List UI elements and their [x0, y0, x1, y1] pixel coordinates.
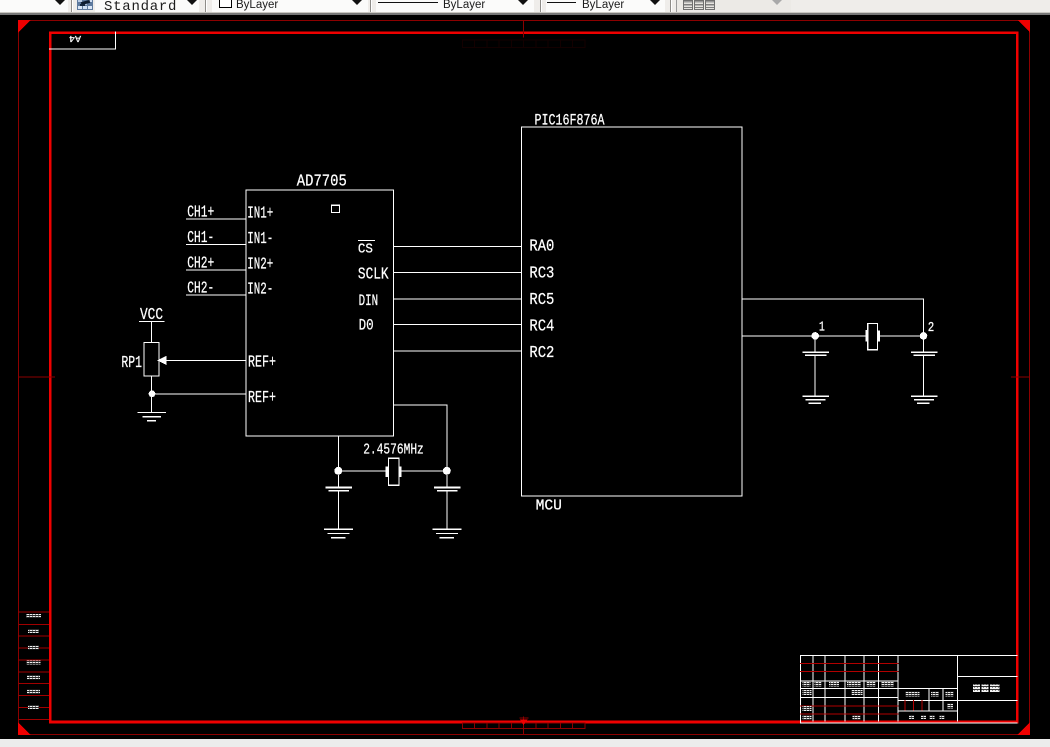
potentiometer RP1	[144, 342, 167, 376]
svg-text:RA0: RA0	[529, 238, 554, 257]
node 2 junction	[920, 332, 928, 340]
crystal Y2 2.4576MHz	[386, 458, 402, 485]
svg-text:RP1: RP1	[121, 354, 142, 373]
svg-text:MCU: MCU	[536, 497, 562, 514]
pin label IN1-	[247, 230, 273, 249]
node B1 junction	[334, 467, 342, 475]
wire node B1 to crystal Y2	[338, 470, 385, 471]
svg-text:A4: A4	[69, 33, 81, 43]
node 1 junction	[811, 332, 819, 340]
pin label RC3	[529, 265, 554, 284]
capacitor C1 (node 1 load cap)	[803, 339, 829, 395]
svg-text:AD7705: AD7705	[297, 173, 347, 192]
crystal Y1 (PIC oscillator)	[865, 323, 880, 349]
pin label D0	[359, 316, 374, 334]
pin label IN2+	[247, 255, 273, 274]
wire DIN to RC5	[394, 298, 522, 299]
power symbol VCC	[139, 306, 165, 325]
junction node at RP1 bottom	[149, 390, 156, 397]
label RP1	[121, 354, 142, 373]
pin label RA0	[529, 238, 554, 257]
wire AD7705 MCLK right to node B2	[394, 404, 448, 471]
svg-text:SCLK: SCLK	[358, 266, 389, 285]
wire junction to REF+ lower	[151, 394, 246, 395]
svg-text:2.4576MHz: 2.4576MHz	[363, 442, 424, 459]
wire junction to ground	[151, 397, 152, 412]
wire CH1+ to IN1+	[186, 219, 246, 220]
pin label IN2-	[247, 281, 273, 300]
label PIC16F876A	[535, 111, 606, 129]
wire CH2- to IN2-	[186, 295, 246, 296]
toolbar	[0, 0, 1050, 12]
wire VCC to RP1	[151, 322, 152, 342]
svg-text:IN1-: IN1-	[247, 230, 273, 249]
capacitor C3 (node B1 load cap)	[325, 475, 352, 529]
wire to RC2	[394, 351, 522, 352]
label AD7705	[297, 173, 347, 192]
svg-text:1: 1	[819, 320, 825, 336]
net label CH2-	[187, 280, 214, 299]
wire CS to RA0	[394, 246, 522, 247]
svg-text:D0: D0	[359, 316, 374, 334]
svg-text:IN2-: IN2-	[247, 281, 273, 300]
svg-text:RC4: RC4	[529, 318, 554, 337]
pin label REF+ (lower)	[248, 389, 276, 408]
svg-text:CH2+: CH2+	[187, 254, 214, 273]
capacitor C2 (node 2 load cap)	[911, 339, 937, 395]
wire RP1 bottom to junction	[151, 376, 152, 394]
ground (C1)	[802, 396, 829, 405]
wire RP1 wiper to REF+ upper	[165, 360, 247, 361]
wire D0 to RC4	[394, 324, 522, 325]
svg-text:CH1-: CH1-	[187, 229, 214, 248]
value label 2.4576MHz	[363, 442, 424, 459]
svg-text:RC2: RC2	[529, 344, 554, 363]
ground (C2)	[911, 396, 938, 405]
wire PIC OSC1 to node 2 (top run)	[742, 298, 924, 336]
pin label SCLK	[358, 266, 389, 285]
svg-text:CS: CS	[358, 242, 373, 258]
label MCU	[536, 497, 562, 514]
wire CH2+ to IN2+	[186, 269, 246, 270]
svg-text:2: 2	[928, 320, 935, 336]
svg-text:REF+: REF+	[248, 389, 276, 408]
wire PIC OSC2 to node 1	[742, 335, 866, 336]
svg-text:PIC16F876A: PIC16F876A	[535, 111, 606, 129]
pin label RC2	[529, 344, 554, 363]
pin label RC4	[529, 318, 554, 337]
net label CH1-	[187, 229, 214, 248]
svg-text:IN1+: IN1+	[247, 205, 273, 224]
IC U1 AD7705 body	[246, 190, 393, 436]
pin label IN1+	[247, 205, 273, 224]
net label CH2+	[187, 254, 214, 273]
ground (C4)	[433, 529, 462, 539]
ground (below RP1)	[138, 412, 167, 422]
pin label DIN	[359, 292, 379, 310]
svg-text:IN2+: IN2+	[247, 255, 273, 274]
capacitor C4 (node B2 load cap)	[434, 475, 461, 529]
wire crystal Y1 to node 2	[880, 335, 924, 336]
net label CH1+	[187, 203, 214, 222]
wire CH1- to IN1-	[186, 244, 246, 245]
svg-text:CH2-: CH2-	[187, 280, 214, 299]
pin label REF+ (upper)	[248, 353, 276, 372]
svg-text:RC3: RC3	[529, 265, 554, 284]
wire crystal Y2 to node B2	[402, 470, 447, 471]
svg-text:DIN: DIN	[359, 292, 379, 310]
wire SCLK to RC3	[394, 272, 522, 273]
label node 2	[928, 320, 935, 336]
svg-text:RC5: RC5	[529, 291, 554, 310]
ground (C3)	[324, 529, 353, 539]
pin label RC5	[529, 291, 554, 310]
IC U2 PIC16F876A body	[522, 127, 742, 496]
pin label CS (active low, overline)	[358, 240, 375, 258]
label node 1	[819, 320, 825, 336]
wire AD7705 MCLK bottom to node B1	[338, 436, 339, 471]
node B2 junction	[443, 467, 451, 475]
svg-text:CH1+: CH1+	[187, 203, 214, 222]
svg-text:REF+: REF+	[248, 353, 276, 372]
